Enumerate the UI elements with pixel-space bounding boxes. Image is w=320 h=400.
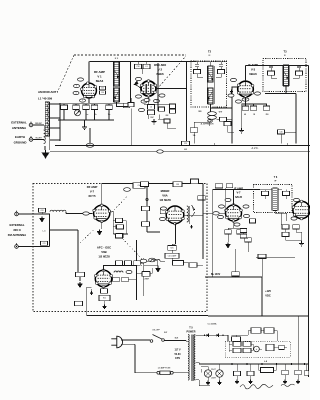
oval AFC right (149, 258, 156, 262)
V2 internal anode bars (145, 84, 151, 93)
capacitor C4 (123, 103, 130, 107)
vertical rail x143.5 AFC (143, 258, 145, 296)
svg-text:1/2 AMP FUSE: 1/2 AMP FUSE (158, 366, 171, 369)
bottom heater bus (199, 363, 309, 365)
wire R16 chain (172, 244, 190, 263)
svg-text:C34: C34 (137, 185, 140, 187)
arrow at bottom rail (90, 291, 92, 295)
ground below R22 (103, 305, 107, 309)
svg-text:6: 6 (143, 101, 144, 103)
junction dots rectifier (204, 334, 206, 336)
filter box d (243, 348, 251, 352)
wire bottom comps (237, 364, 307, 380)
svg-text:FM ANTENNA: FM ANTENNA (8, 233, 26, 237)
wire R22 ground (104, 301, 106, 305)
wire left rail to box (78, 230, 80, 281)
svg-text:V 1: V 1 (97, 75, 102, 79)
osc extra box (164, 119, 170, 123)
filter dashed box (225, 341, 290, 357)
box right edge bottom (304, 371, 309, 375)
T2 core lines (207, 66, 214, 104)
tube V2 6BE6 (140, 80, 156, 98)
wire fuse to T5 (173, 372, 186, 374)
ground below T6 (299, 241, 304, 246)
svg-text:EXTERNAL: EXTERNAL (11, 121, 27, 125)
pin oval V1 left1 (74, 84, 80, 87)
T5 primary winding (188, 335, 189, 381)
svg-text:OSC-MIX: OSC-MIX (154, 63, 166, 67)
pilot lamp 2 (216, 370, 223, 377)
svg-text:6CY5: 6CY5 (89, 194, 96, 198)
wire L7 rail (147, 195, 160, 232)
resistor R34 (282, 370, 289, 375)
T2 dashed can (191, 61, 227, 107)
pin oval V2 right (159, 94, 165, 97)
wire mixer out to V4 (203, 212, 226, 214)
filter box a (233, 342, 241, 346)
vertical osc rail x158 (157, 63, 159, 111)
pin oval V3 left top (231, 78, 237, 81)
svg-text:CPS: CPS (175, 357, 180, 360)
capacitor C9 box (220, 117, 227, 121)
junction knob L7 top (146, 198, 148, 200)
wire AVC tap down to bus (89, 128, 91, 144)
svg-text:EARTH: EARTH (15, 135, 25, 139)
pin oval V3 cathode (236, 100, 242, 103)
svg-text:68: 68 (244, 114, 246, 116)
mixer coil arrows (192, 205, 196, 217)
FM top bus inside box (102, 183, 203, 185)
wire below T2 cluster (194, 119, 232, 143)
svg-text:C30: C30 (279, 132, 282, 134)
pin oval V3 right (255, 92, 261, 95)
switch S1 (150, 335, 164, 343)
capacitor bottom left box (142, 272, 150, 276)
svg-text:C38: C38 (176, 184, 179, 186)
AVC arrow at V3 (230, 90, 232, 94)
extra AFC oval (126, 270, 132, 273)
mixer coil core (188, 206, 190, 224)
oval left of cluster (140, 259, 147, 263)
box right of mixer coil (198, 196, 206, 200)
gang dashed diagonal FM upper (80, 230, 94, 244)
terminal FM antenna B (15, 243, 19, 248)
capacitor box under diodes (232, 337, 241, 342)
boxes below T6 c (282, 232, 289, 236)
wire R5 (228, 126, 235, 132)
resistor R3 (128, 102, 134, 106)
FM tuner dashed enclosure (33, 184, 207, 312)
terminal external antenna (29, 122, 33, 127)
wire osc cluster (144, 96, 176, 119)
resistor R5 left (224, 121, 231, 125)
lower bus line (50, 151, 310, 153)
tube V3 6BA6 (237, 81, 254, 98)
wire switch to T5 (164, 340, 186, 342)
svg-text:V-7: V-7 (90, 190, 95, 194)
signature squiggle right (281, 384, 295, 386)
wire R20 (213, 190, 249, 278)
svg-text:V-7: V-7 (236, 191, 241, 195)
grounds bottom row (235, 380, 239, 384)
svg-text:0.05: 0.05 (184, 149, 187, 151)
wire T6 top (260, 190, 286, 200)
resistor R9 (250, 106, 257, 110)
junction oval below T2 (208, 120, 212, 122)
boxes below T6 b (293, 225, 300, 229)
T5 primary connections (186, 341, 188, 373)
L1 core line (49, 102, 51, 150)
gang dashed diagonal FM lower (120, 236, 141, 266)
junction dots heater bus (231, 363, 233, 365)
svg-text:6BA6: 6BA6 (249, 72, 257, 76)
terminal FM antenna A (15, 211, 19, 216)
capacitor C29 on lead B (41, 241, 48, 245)
T3 trimmer cap right (297, 66, 301, 68)
resistor R33 (234, 371, 241, 376)
oval V5 top left (294, 198, 300, 201)
T2 secondary winding (208, 88, 213, 104)
svg-text:300 Ω: 300 Ω (13, 228, 21, 232)
svg-text:V-3: V-3 (251, 68, 256, 72)
T3 core lines (283, 65, 290, 86)
AFC input box on left rail (76, 272, 85, 277)
capacitor C39 box (191, 179, 199, 184)
capacitor C65 (295, 370, 302, 375)
capacitor C47 (116, 261, 123, 265)
tuning gang dashed top line (74, 54, 186, 56)
T5 secondary taps (195, 335, 210, 385)
resistor R18 (143, 271, 150, 275)
resistor R20 (245, 238, 252, 242)
pin oval V4 left (219, 205, 225, 208)
rectifier diode D2 (216, 334, 218, 337)
capacitor C8A box (190, 128, 198, 132)
wire filter net (229, 341, 287, 352)
capacitor C13 (263, 106, 270, 110)
junction dots AVC bus (89, 145, 91, 147)
pin oval V2 left (136, 77, 142, 80)
rectifier wire (203, 335, 228, 341)
oval pair below T2 b (208, 116, 217, 120)
pin oval V1 grid cap (78, 78, 84, 81)
wire V3 plate to T3 rail (246, 66, 309, 82)
capacitor C50 below V6B (101, 289, 108, 293)
svg-text:L4: L4 (150, 107, 152, 109)
T2 trimmer cap right (219, 65, 223, 67)
wire V6A grid stub (160, 208, 167, 214)
wire plug hot (121, 339, 150, 341)
svg-text:SW: SW (164, 332, 167, 334)
filter box b (243, 342, 251, 346)
vertical rail x186.5 to AVC bus (186, 62, 188, 144)
pin oval V4 right a (243, 205, 249, 208)
svg-text:AM ROD ANT: AM ROD ANT (38, 90, 57, 94)
resistor R19 (113, 277, 120, 281)
vertical rail x203 in FM box (202, 184, 204, 260)
top B+ rail of AM section (90, 61, 197, 63)
tuning network top rail (60, 103, 131, 105)
svg-text:R25: R25 (170, 247, 173, 249)
wire FM lead B (18, 246, 49, 248)
T3 winding (284, 65, 289, 86)
junction dot V2 plate rail (186, 88, 188, 90)
boxes right of V4 b (240, 234, 247, 238)
T3 trimmer cap left (269, 66, 273, 68)
wire V3 cathode to ground (241, 104, 243, 128)
right edge vertical rail (308, 66, 310, 378)
T2 primary winding (208, 66, 213, 82)
capacitor box on rail (182, 141, 190, 145)
vertical rail x136.5 AFC (136, 240, 138, 300)
svg-text:A.V.C.: A.V.C. (252, 147, 259, 150)
components below V3 (242, 97, 268, 106)
svg-text:V6A: V6A (162, 194, 167, 198)
svg-text:L1 ¹40-309: L1 ¹40-309 (38, 97, 53, 101)
box pair above AFC a (117, 225, 124, 229)
wire center tap (50, 229, 79, 231)
svg-text:6BA6: 6BA6 (96, 79, 104, 83)
tuning gang dashed diagonal through V2 to top (150, 56, 186, 97)
resistor on V7 plate c (116, 233, 123, 237)
tube V1 6BA6 (80, 82, 96, 98)
wire T6 bottom (275, 211, 287, 226)
gang dashed diagonal FM upper b (112, 197, 128, 213)
fuse F1 (157, 371, 173, 375)
wire bottom drop to power bus (87, 287, 92, 316)
svg-text:RF AMP: RF AMP (94, 70, 105, 74)
svg-text:RF AMP: RF AMP (87, 185, 98, 189)
wire 258 rail (256, 258, 295, 277)
pin oval V6A low (160, 217, 166, 220)
pin oval V2 low right (154, 99, 160, 102)
svg-text:7: 7 (76, 86, 77, 88)
wire AFC line (147, 261, 165, 267)
svg-text:1/2 6EZ8: 1/2 6EZ8 (98, 254, 110, 258)
oval on lower bus (157, 150, 163, 153)
box near bottom edge (75, 301, 83, 305)
capacitor C44 wide box (165, 253, 179, 258)
AC plug (111, 336, 122, 348)
svg-text:GROUND: GROUND (14, 141, 27, 145)
svg-text:+125: +125 (265, 289, 271, 293)
oval on mixer out wire (213, 212, 219, 215)
T5 secondary winding (194, 335, 195, 381)
osc padder box (159, 107, 165, 111)
wire FM lead A (18, 213, 50, 215)
svg-text:121: 121 (101, 88, 104, 90)
L1 taps to tuning network (50, 103, 60, 141)
wire V6B cathode (103, 287, 105, 289)
coil right of V6B (114, 271, 123, 273)
boxes below T6 a (282, 225, 289, 229)
capacitor C64 (247, 371, 254, 376)
coil bumps in AFC line (151, 260, 160, 262)
T1 core lines (113, 62, 120, 102)
oscillator trimmer box (148, 110, 155, 114)
power top bus (208, 315, 309, 317)
V7 cathode ground arrow (101, 221, 103, 229)
svg-text:WHT: WHT (219, 112, 222, 114)
divider box R31 (264, 328, 274, 333)
T6 dashed can (254, 185, 293, 213)
svg-text:6AU6: 6AU6 (235, 195, 242, 199)
wire arrow connect (144, 266, 159, 267)
tube V6A mixer (165, 206, 184, 225)
svg-text:1/2 6EZ8: 1/2 6EZ8 (159, 198, 171, 202)
coil L6a on lead A (50, 210, 66, 212)
wire V4 screen drop (235, 249, 237, 272)
osc grid resistor (170, 104, 176, 108)
wire box to drop (281, 132, 296, 144)
capacitor C34 box (133, 183, 145, 189)
capacitor C48 (125, 261, 132, 265)
wire mixer plate (184, 214, 203, 216)
ground V4 (226, 243, 230, 248)
choke L8 (261, 368, 274, 373)
IF top rail row2 (213, 189, 261, 191)
oval label below V2 (144, 98, 150, 101)
capacitor C49 (122, 277, 129, 281)
L1 winding inner hatch (45, 102, 49, 136)
wire T2 secondary out (211, 104, 233, 144)
signature squiggle (240, 384, 273, 389)
filter box e (266, 344, 274, 351)
wire stubs AVC bus (131, 109, 287, 146)
wire pilot stubs (201, 364, 220, 381)
T5 core lines (191, 335, 193, 382)
tuning network bottom rail (58, 110, 114, 125)
wire V1 plate to rail (88, 62, 90, 84)
capacitor C28 on lead A (39, 208, 46, 212)
arrow below mixer coil (190, 225, 192, 228)
osc extra oval (139, 108, 145, 111)
ground below L1 (44, 146, 46, 150)
wire V3 grid from T2 (232, 87, 238, 108)
mixer output coil (187, 206, 189, 222)
pin oval V4 bottom (234, 223, 240, 226)
oscillator coil L4 box (148, 105, 155, 109)
wire divider boxes (232, 331, 278, 342)
wire C46 (197, 264, 203, 266)
capacitor C52 box (226, 184, 233, 188)
svg-text:ANTENNA: ANTENNA (12, 126, 27, 130)
box on B+ bus (232, 272, 240, 276)
pin oval V3 bottom (242, 98, 249, 101)
svg-text:117 V: 117 V (174, 349, 181, 352)
component box above V2 a (135, 64, 142, 68)
resistor on V7 plate a (116, 218, 123, 222)
oval V5 bottom left (291, 217, 297, 220)
svg-text:LIGHT: LIGHT (211, 377, 216, 379)
ground arrow left rail (78, 282, 82, 287)
capacitor C45 (134, 261, 141, 265)
wire V4 plate (233, 190, 235, 206)
svg-text:RED-WHT: RED-WHT (35, 123, 42, 125)
junction dot V3 plate rail (263, 65, 265, 67)
svg-text:1b: 1b (95, 114, 97, 116)
pin oval V2 cathode (141, 100, 147, 103)
speaker feed box (173, 261, 184, 266)
rectifier diode D1 (206, 334, 208, 337)
wire L6a to V7 grid (66, 212, 93, 214)
wire plate resistors (113, 221, 126, 235)
svg-text:YEL-WHT: YEL-WHT (35, 137, 41, 139)
value box V1 right a (100, 86, 106, 90)
svg-text:VDC: VDC (265, 293, 271, 297)
resistor R8 (242, 106, 249, 110)
wire antenna terminal to L1 (33, 125, 44, 130)
osc grid cap (170, 109, 176, 113)
svg-text:1: 1 (75, 93, 76, 95)
capacitor C3 (106, 105, 113, 110)
T6 core lines (272, 188, 278, 211)
junction dots on 316 bus (261, 315, 263, 317)
T3 wiring (271, 66, 299, 79)
T3 dashed can (263, 59, 306, 92)
filter box f (279, 345, 285, 349)
svg-text:PILOT: PILOT (211, 369, 216, 371)
wire +125 drop (261, 277, 263, 316)
wire V7 plate chain (110, 211, 128, 234)
T1 primary winding (114, 62, 119, 86)
tuning gang dashed diagonal left (57, 55, 74, 93)
wire T3 secondary down (265, 86, 296, 144)
wire rail top to bus (146, 184, 148, 196)
wire V4 cathode net (228, 221, 240, 242)
svg-text:150: 150 (101, 92, 104, 94)
resistor R14 on rail (142, 222, 150, 226)
resistor below V4 b (237, 230, 244, 234)
pin oval V4 low (218, 215, 224, 218)
junction dot V4 plate (233, 189, 235, 191)
svg-text:IF AMP: IF AMP (248, 63, 258, 67)
wire V7 top to bus (101, 184, 103, 206)
wire mixer cathode (175, 224, 177, 244)
L1 coupling winding (44, 130, 46, 144)
svg-text:5: 5 (156, 101, 157, 103)
capacitor C55 left (250, 219, 256, 223)
resistor on V7 plate b (116, 225, 123, 229)
svg-text:L-8: L-8 (264, 361, 267, 363)
left rail in FM box (77, 230, 79, 268)
svg-text:UL 400MA: UL 400MA (208, 322, 218, 325)
tuning capacitor rotor (arrow) (75, 110, 81, 116)
oval R2 on AVC bus (86, 143, 94, 147)
pin oval V2 low left (136, 95, 142, 98)
svg-text:250: 250 (266, 114, 269, 116)
T6 winding (273, 188, 278, 211)
wire right edge power (298, 316, 300, 364)
AM rod antenna coil L1 winding (46, 102, 48, 136)
capacitor C1B (73, 105, 80, 110)
wire FM box to power bus line (87, 315, 209, 317)
wire T1 secondary to V2 grid (117, 98, 132, 107)
black arrow ground AFC (156, 267, 160, 272)
wire V6B top (104, 266, 137, 271)
svg-text:6BE6: 6BE6 (156, 72, 164, 76)
tube V6B AFC oscillator (95, 269, 113, 288)
resistor R16 (168, 246, 177, 251)
svg-text:B+ 140V: B+ 140V (211, 273, 221, 276)
capacitor C2 (83, 105, 90, 110)
T2 tuning arrows (208, 72, 213, 99)
wire AFC network (112, 263, 152, 280)
pin oval V4 right b (244, 214, 250, 217)
filter box c (233, 348, 241, 352)
resistor below V4 a (225, 230, 232, 234)
junction dot V3 grid (231, 86, 233, 88)
